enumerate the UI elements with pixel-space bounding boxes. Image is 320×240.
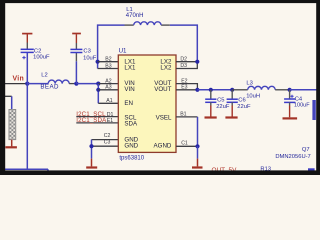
capacitor C3 bbox=[70, 43, 82, 53]
svg-text:D3: D3 bbox=[180, 63, 187, 69]
pin A3 lead bbox=[98, 89, 118, 91]
pin C2 lead (GND) bbox=[92, 139, 119, 141]
svg-text:22uF: 22uF bbox=[216, 104, 230, 110]
inductor L1 loop wire bbox=[98, 25, 198, 68]
pin C3 lead (GND) bbox=[92, 145, 119, 147]
svg-text:C6: C6 bbox=[238, 97, 245, 103]
ground symbol (F1) bbox=[5, 140, 17, 148]
svg-text:E1: E1 bbox=[107, 118, 113, 124]
node junction LX1 bbox=[96, 60, 100, 64]
svg-text:470nH: 470nH bbox=[126, 13, 144, 19]
node junction AGND bbox=[195, 144, 199, 148]
svg-text:VIN: VIN bbox=[124, 86, 134, 93]
node junction BEAD/C3 bbox=[74, 82, 78, 86]
node junction LX2 bbox=[195, 60, 199, 64]
capacitor C5 bbox=[205, 90, 216, 106]
svg-text:A2: A2 bbox=[105, 79, 111, 85]
svg-text:AGND: AGND bbox=[154, 143, 172, 150]
svg-text:C1: C1 bbox=[181, 140, 188, 146]
wire C2 vertical branch and bottom-left wire bbox=[5, 52, 48, 173]
inductor L2 (ferrite bead) bbox=[27, 83, 48, 85]
pin E3 lead bbox=[176, 89, 197, 91]
pin B2 lead bbox=[98, 61, 119, 63]
svg-text:Vin: Vin bbox=[13, 76, 25, 83]
border frame bbox=[0, 0, 5, 175]
svg-text:L2: L2 bbox=[41, 73, 47, 79]
svg-text:100uF: 100uF bbox=[33, 55, 50, 61]
node junction C6 bbox=[230, 88, 234, 92]
node junction GND bbox=[89, 144, 93, 148]
svg-text:VOUT: VOUT bbox=[154, 86, 171, 93]
svg-text:I2C1_SDA: I2C1_SDA bbox=[76, 117, 107, 124]
inductor L3 coil bbox=[248, 86, 276, 89]
svg-text:E2: E2 bbox=[181, 79, 187, 85]
svg-text:D1: D1 bbox=[107, 112, 114, 118]
svg-text:C2: C2 bbox=[104, 133, 111, 139]
svg-text:Q7: Q7 bbox=[302, 147, 310, 153]
svg-text:L3: L3 bbox=[246, 81, 252, 87]
node junction A3 bbox=[96, 88, 100, 92]
node junction Vin/C2 bbox=[25, 82, 29, 86]
pin D2 lead bbox=[176, 61, 197, 63]
svg-text:U1: U1 bbox=[119, 47, 127, 54]
wire SCL bbox=[76, 116, 118, 118]
svg-text:tps63810: tps63810 bbox=[119, 156, 144, 162]
pin C1 lead (AGND) bbox=[176, 145, 198, 147]
capacitor C2 bbox=[21, 43, 34, 60]
svg-text:E3: E3 bbox=[181, 85, 187, 91]
inductor L1 pin leads bbox=[125, 24, 134, 26]
svg-text:LX1: LX1 bbox=[124, 64, 136, 71]
svg-text:DMN2056U-7: DMN2056U-7 bbox=[275, 154, 310, 160]
svg-text:C3: C3 bbox=[83, 48, 90, 54]
pin A1 lead (EN) bbox=[98, 102, 118, 104]
svg-text:C4: C4 bbox=[295, 96, 303, 102]
wire VSEL to AGND bbox=[197, 117, 199, 146]
wire A2-A3-EN vertical bbox=[97, 84, 99, 104]
power symbol VIN bar (above C2) bbox=[22, 34, 32, 43]
wire SDA bbox=[76, 122, 118, 124]
pin E2 lead bbox=[176, 84, 197, 90]
wire VOUT rail bbox=[197, 89, 233, 91]
pin B1 lead (VSEL) bbox=[176, 116, 198, 118]
wire C3 vertical branch bbox=[75, 53, 77, 62]
svg-text:B2: B2 bbox=[105, 57, 111, 63]
svg-text:C5: C5 bbox=[217, 97, 224, 103]
svg-text:LX2: LX2 bbox=[160, 64, 172, 71]
svg-text:GND: GND bbox=[124, 142, 138, 149]
svg-text:VSEL: VSEL bbox=[156, 114, 172, 121]
svg-text:100uF: 100uF bbox=[294, 103, 310, 109]
ground symbol (C5) bbox=[205, 106, 217, 118]
svg-text:22uF: 22uF bbox=[237, 104, 251, 110]
pin B3 lead bbox=[98, 68, 119, 70]
svg-text:10uF: 10uF bbox=[83, 55, 97, 61]
ground symbol (C4) bbox=[283, 106, 298, 119]
wire VIN rail to pins bbox=[76, 83, 98, 85]
svg-text:SDA: SDA bbox=[124, 121, 138, 128]
pin A2 lead bbox=[98, 83, 118, 85]
power symbol VIN bar (above C3) bbox=[72, 34, 81, 44]
svg-text:BEAD: BEAD bbox=[40, 84, 59, 91]
node junction C4 bbox=[288, 88, 292, 92]
schematic background bbox=[0, 0, 320, 175]
svg-text:D2: D2 bbox=[180, 56, 187, 62]
node junction VOUT bbox=[195, 88, 199, 92]
svg-text:C2: C2 bbox=[34, 48, 41, 54]
pin D3 lead bbox=[176, 62, 197, 69]
svg-text:C3: C3 bbox=[104, 140, 111, 146]
capacitor C6 bbox=[227, 90, 238, 106]
wire stub bottom right (cut) bbox=[308, 168, 315, 171]
ground symbol (C6) bbox=[225, 106, 237, 118]
ground symbol (AGND) bbox=[192, 159, 203, 168]
inductor L3 right pin bbox=[275, 89, 289, 91]
wire Vin rail (dark segment from left edge) bbox=[5, 83, 27, 85]
inductor L3 left pin bbox=[232, 89, 248, 91]
wire AGND down bbox=[197, 146, 199, 158]
IC U1 body (tps63810 converter) bbox=[118, 55, 176, 152]
svg-text:A3: A3 bbox=[105, 85, 111, 91]
svg-text:EN: EN bbox=[124, 100, 133, 107]
svg-text:B3: B3 bbox=[105, 63, 111, 69]
svg-text:A1: A1 bbox=[106, 98, 112, 104]
node junction C5 bbox=[209, 88, 213, 92]
inductor L1 coil bbox=[134, 22, 161, 25]
svg-text:B1: B1 bbox=[180, 112, 186, 118]
fuse F1 body (hatched) bbox=[9, 109, 16, 139]
svg-text:10uH: 10uH bbox=[246, 93, 260, 99]
node junction A2 bbox=[96, 82, 100, 86]
ground symbol (U1 GND) bbox=[86, 159, 97, 168]
wire to fuse F1 bbox=[5, 95, 12, 97]
wire stub at right edge (cut component) bbox=[312, 100, 315, 120]
capacitor C4 bbox=[284, 90, 295, 106]
wire VOUT to right edge bbox=[290, 89, 317, 91]
wire GND vertical bbox=[91, 140, 93, 159]
